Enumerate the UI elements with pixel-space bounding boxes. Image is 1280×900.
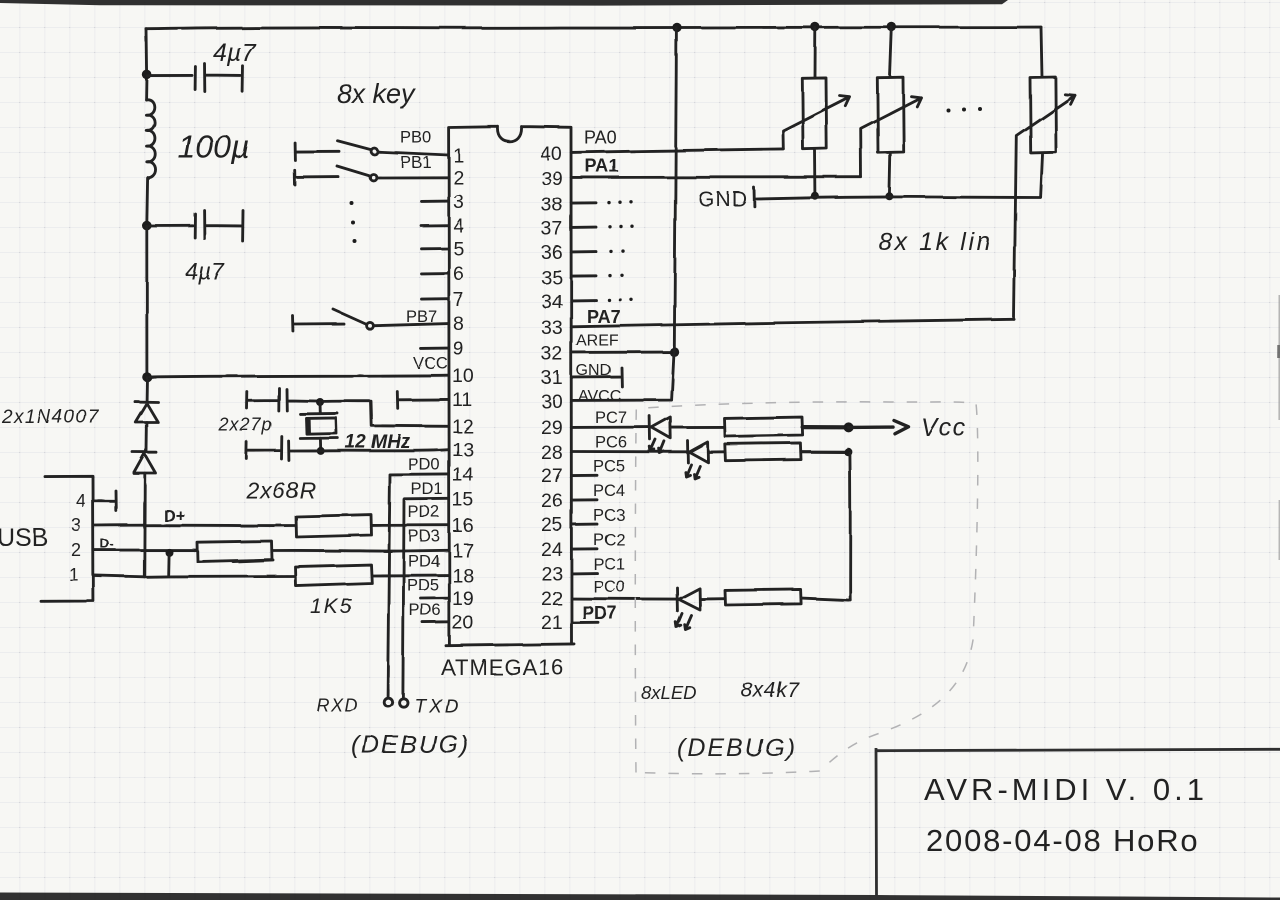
wire: pot GND net with end tick: [754, 188, 1040, 207]
label: D-: [100, 536, 114, 551]
wire: USB pin 4 shield stub with tick: [93, 491, 116, 511]
label: PD2: [408, 504, 440, 522]
wire: LED1 to resistor R1: [671, 426, 724, 429]
pin number 12: [452, 416, 474, 438]
pin number 8: [453, 313, 464, 335]
svg-text:19: 19: [452, 588, 474, 610]
svg-text:11: 11: [452, 389, 472, 411]
pin number 9: [453, 338, 464, 360]
svg-text:2008-04-08 HoRo: 2008-04-08 HoRo: [926, 823, 1199, 858]
pin number 33: [541, 317, 563, 339]
node: ellipsis dots (keys 3..7): [350, 201, 357, 243]
pin number 40: [540, 143, 562, 165]
node: TXD terminal circle: [399, 698, 407, 706]
svg-text:PD4: PD4: [408, 553, 440, 571]
wire: pin 25 stub: [572, 523, 598, 526]
pin number 13: [452, 439, 474, 461]
label: 4µ7 (C1): [213, 39, 256, 67]
svg-text:25: 25: [541, 514, 563, 536]
label: 8x 1k lin: [878, 228, 993, 256]
svg-text:PD3: PD3: [408, 528, 440, 546]
wire: pin 4 stub: [421, 224, 449, 227]
svg-text:32: 32: [541, 343, 563, 365]
pin number 28: [541, 442, 563, 464]
svg-text:PC7: PC7: [595, 409, 627, 427]
svg-text:D+: D+: [163, 506, 185, 525]
label: AREF: [576, 333, 619, 350]
pin number 36: [541, 242, 563, 264]
crystal X1 12MHz: [300, 402, 338, 450]
svg-text:24: 24: [541, 539, 563, 561]
svg-text:7: 7: [453, 289, 464, 311]
svg-text:PB7: PB7: [406, 308, 437, 326]
svg-text:PA0: PA0: [584, 128, 617, 148]
node: junction top rail / pot 1: [811, 22, 820, 31]
wire: diode D2 to USB VBUS line: [143, 473, 146, 577]
wire: switch S2 to pin 2: [376, 176, 448, 179]
wire: pin 34 stub: [572, 299, 597, 302]
node: junction top rail / pot 2: [887, 22, 896, 31]
wire: AVCC pin 30 up to AREF junction: [572, 353, 675, 401]
label: GND (pin 31): [576, 363, 612, 380]
svg-text:PD0: PD0: [408, 456, 440, 474]
svg-text:4µ7: 4µ7: [185, 258, 225, 284]
svg-text:AVR-MIDI V. 0.1: AVR-MIDI V. 0.1: [924, 772, 1208, 807]
svg-text:2x1N4007: 2x1N4007: [1, 407, 100, 428]
svg-text:14: 14: [452, 464, 474, 486]
svg-text:21: 21: [541, 612, 563, 634]
connector J1 USB body: [41, 476, 93, 601]
resistor 68R (D+ series): [296, 515, 372, 537]
pin number 11: [452, 389, 472, 411]
pin number 17: [452, 540, 474, 562]
label: PC7: [595, 409, 627, 427]
svg-text:40: 40: [540, 143, 562, 165]
boundary: debug dashed outline: [635, 402, 978, 774]
switch S2 key PB1: [294, 166, 376, 185]
switch S1 key PB0: [295, 141, 378, 160]
label: PC4: [593, 482, 625, 500]
capacitor C4 27p (lower): [246, 437, 318, 461]
label: PC1: [593, 556, 625, 574]
wire: D- net USB pin 2 to resistor: [93, 549, 196, 552]
wire: pin 9 stub: [421, 347, 449, 350]
label: 8x4k7: [741, 679, 800, 702]
label: PC2: [593, 531, 625, 549]
svg-text:18: 18: [452, 565, 474, 587]
svg-text:8x 1k lin: 8x 1k lin: [878, 228, 993, 256]
wire: switch S1 to pin 1: [378, 152, 449, 155]
svg-text:5: 5: [453, 238, 464, 260]
potentiometer RV1 wiper arrow: [783, 96, 850, 149]
wire: pin 31 GND stub with tick: [572, 368, 623, 387]
wire: pin 28 PC6 to LED2: [572, 450, 687, 453]
node: dots pin 38: [607, 200, 632, 204]
node: junction left rail / C1: [142, 70, 152, 80]
resistor R3 4k7: [725, 589, 801, 605]
svg-text:1: 1: [69, 565, 79, 585]
pin number 15: [452, 489, 474, 511]
wire: pin 6 stub: [421, 272, 449, 275]
wire: VCC net to pin 10: [147, 375, 449, 377]
label: 8x key: [337, 79, 417, 109]
svg-text:AREF: AREF: [576, 333, 619, 350]
label: PD4: [408, 553, 440, 571]
wire: left rail to diode D1: [145, 378, 148, 402]
node: dots pin 37: [608, 225, 633, 229]
label: PD0: [408, 456, 440, 474]
svg-text:20: 20: [452, 612, 474, 634]
svg-text:10: 10: [452, 365, 474, 387]
svg-text:(DEBUG): (DEBUG): [351, 731, 471, 759]
pin number 4: [453, 215, 464, 237]
label: PB1: [400, 154, 431, 172]
node: dots pin 34: [607, 298, 632, 302]
label: PB7: [406, 308, 437, 326]
title block frame: [876, 748, 1280, 896]
node: junction R1 / Vcc arrow / column: [844, 422, 854, 432]
pin number 3: [453, 191, 464, 213]
pin number 26: [541, 490, 563, 512]
pin number 27: [541, 465, 563, 487]
IC U1 ATMEGA16 body: [446, 127, 574, 646]
wire: PA0 net pin 40 to pot 1 wiper: [572, 149, 784, 153]
svg-text:3: 3: [453, 191, 464, 213]
svg-text:PD7: PD7: [582, 603, 617, 623]
potentiometer RV3 1k body: [1030, 27, 1056, 197]
svg-text:8x key: 8x key: [337, 79, 417, 109]
wire: pin 20 stub: [423, 621, 449, 624]
wire: pin 29 PC7 to LED1: [572, 426, 649, 429]
svg-text:12 MHz: 12 MHz: [345, 432, 411, 453]
node: junction top rail / vcc feed: [672, 23, 681, 32]
wire: USB pin 1 VBUS line: [93, 575, 294, 576]
svg-text:4: 4: [76, 491, 86, 511]
wire: pin 11 stub with tick: [397, 392, 448, 409]
pin number 14: [452, 464, 474, 486]
wire: R1 to Vcc node (heavy): [803, 425, 848, 429]
svg-text:2x27p: 2x27p: [218, 415, 273, 435]
pin number 25: [541, 514, 563, 536]
diode D1 1N4007: [135, 402, 158, 422]
label: date 2008-04-08 HoRo: [926, 823, 1199, 858]
wire: pin 15 TXD drop: [403, 499, 449, 697]
pin number 24: [541, 539, 563, 561]
LED D4 (PC6): [685, 441, 708, 479]
pin number 10: [452, 365, 474, 387]
svg-text:12: 12: [452, 416, 474, 438]
wire: vcc column vertical: [848, 453, 851, 600]
wire: pin 37 stub: [572, 226, 597, 229]
svg-text:6: 6: [453, 263, 464, 285]
wire: pin 27 stub: [572, 474, 598, 477]
capacitor C1 4µ7: [147, 64, 243, 92]
inductor L1 100µ: [146, 99, 156, 225]
wire: D+ resistor to pin 16: [372, 524, 449, 527]
LED D3 (PC7): [650, 416, 671, 453]
node: junction RV1 / GND net: [811, 192, 819, 200]
pin number 2: [453, 167, 464, 189]
svg-text:4: 4: [453, 215, 464, 237]
wire: pin 14 RXD drop: [388, 474, 449, 696]
svg-text:PD6: PD6: [409, 602, 441, 620]
wire: left supply rail upper: [145, 29, 148, 100]
label: USB: [0, 524, 48, 552]
svg-text:15: 15: [452, 489, 474, 511]
node: junction left rail / C2: [142, 221, 152, 231]
svg-text:TXD: TXD: [414, 696, 461, 717]
wire: D- junction stub down to VBUS line: [167, 554, 170, 575]
pin number 1: [453, 145, 464, 167]
wire: pin 5 stub: [422, 247, 449, 250]
node: junction D- / pullup stub: [165, 548, 173, 556]
wire: Vcc arrow: [849, 421, 909, 434]
pin number 34: [541, 291, 563, 313]
svg-text:8xLED: 8xLED: [641, 682, 697, 703]
svg-text:2: 2: [453, 167, 464, 189]
potentiometer RV1 1k body: [802, 28, 826, 196]
wire: pin 36 stub: [572, 250, 597, 253]
svg-text:16: 16: [452, 515, 474, 537]
pin number 6: [453, 263, 464, 285]
capacitor C2 4µ7: [147, 211, 243, 242]
label: 2x68R: [245, 477, 316, 503]
label: PD5: [407, 577, 439, 595]
svg-text:PC2: PC2: [593, 531, 625, 549]
label: PD1: [411, 481, 443, 499]
svg-text:35: 35: [541, 267, 563, 289]
label: (DEBUG) leds: [677, 734, 797, 762]
node: junction R2 / vcc column: [844, 448, 852, 456]
wire: switch S8 to pin 8: [373, 324, 448, 326]
pin number 5: [453, 238, 464, 260]
pin number 16: [452, 515, 474, 537]
resistor R1 4k7: [725, 417, 803, 436]
svg-text:4µ7: 4µ7: [213, 39, 256, 67]
label: RXD: [316, 695, 359, 715]
label: PD3: [408, 528, 440, 546]
pin number 31: [541, 367, 563, 389]
label: USB pin 2: [71, 540, 81, 560]
svg-text:Vcc: Vcc: [921, 414, 967, 442]
label: PD6: [409, 602, 441, 620]
pin number 39: [541, 168, 563, 190]
wire: pin 26 stub: [572, 498, 598, 501]
wire: pin 24 stub: [572, 547, 598, 550]
label: title AVR-MIDI V. 0.1: [924, 772, 1208, 807]
label: 1K5: [310, 595, 353, 618]
label: ATMEGA16: [441, 655, 565, 680]
wire: 1K5 to pin 18: [372, 574, 449, 577]
svg-text:PC6: PC6: [595, 434, 627, 452]
svg-text:100µ: 100µ: [178, 129, 250, 165]
pin number 30: [541, 391, 563, 413]
svg-text:PC0: PC0: [593, 578, 625, 596]
svg-text:17: 17: [452, 540, 474, 562]
svg-text:PD2: PD2: [408, 504, 440, 522]
wire: LED2 to resistor R2: [708, 450, 724, 453]
node: dots pin 36: [609, 249, 624, 253]
pin number 23: [541, 563, 563, 585]
label: 2x1N4007: [1, 407, 100, 428]
pin number 35: [541, 267, 563, 289]
label: USB pin 4: [76, 491, 86, 511]
potentiometer RV2 1k body: [877, 27, 903, 196]
potentiometer RV3 wiper arrow: [1014, 94, 1075, 319]
wire: pin 22 PC0 to LED3: [572, 597, 676, 600]
wire: left rail middle: [145, 226, 148, 377]
svg-text:(DEBUG): (DEBUG): [677, 734, 797, 762]
svg-text:27: 27: [541, 465, 563, 487]
wire: D- resistor to pin 17: [272, 549, 449, 553]
svg-text:36: 36: [541, 242, 563, 264]
svg-text:PC1: PC1: [593, 556, 625, 574]
node: junction RV2 / GND net: [885, 192, 893, 200]
svg-text:PB0: PB0: [400, 129, 431, 147]
label: GND (pots): [698, 188, 748, 211]
label: (DEBUG) serial: [351, 731, 471, 759]
label: USB pin 1: [69, 565, 79, 585]
label: PA0: [584, 128, 617, 148]
svg-text:1: 1: [453, 145, 464, 167]
wire: D+ net USB pin 3 to resistor: [93, 524, 295, 527]
wire: top Vcc rail: [146, 27, 1041, 29]
svg-text:RXD: RXD: [316, 695, 359, 715]
wire: LED3 to resistor R3: [700, 597, 724, 600]
pin number 21: [541, 612, 563, 634]
svg-text:VCC: VCC: [413, 355, 448, 373]
label: PC6: [595, 434, 627, 452]
label: Vcc: [921, 414, 967, 442]
wire: R2 to vcc column: [801, 450, 848, 453]
svg-text:PC4: PC4: [593, 482, 625, 500]
label: D+: [163, 506, 185, 525]
svg-text:22: 22: [541, 588, 563, 610]
node: ellipsis dots (pots 3..7): [946, 107, 982, 112]
label: VCC: [413, 355, 448, 373]
svg-text:PC5: PC5: [593, 458, 625, 476]
pin number 20: [452, 612, 474, 634]
svg-text:30: 30: [541, 391, 563, 413]
node: RXD terminal circle: [384, 698, 392, 706]
label: 100µ (L1): [178, 129, 250, 165]
svg-text:PB1: PB1: [400, 154, 431, 172]
pin number 37: [541, 218, 563, 240]
wire: AREF pin 32 to vcc feed: [572, 351, 675, 354]
label: PC3: [593, 507, 625, 525]
pin number 29: [541, 417, 563, 439]
label: 2x27p: [218, 415, 273, 435]
pin number 38: [541, 194, 563, 216]
capacitor C3 27p (upper): [247, 388, 318, 411]
svg-text:3: 3: [71, 515, 81, 535]
svg-text:29: 29: [541, 417, 563, 439]
svg-text:GND: GND: [698, 188, 748, 211]
wire: pin 19 stub: [421, 597, 449, 600]
label: PD7: [582, 603, 617, 623]
wire: pin 35 stub: [572, 274, 597, 277]
wire: upper 27p to pin 12: [320, 401, 449, 426]
pin number 18: [452, 565, 474, 587]
svg-text:AVCC: AVCC: [578, 388, 621, 405]
potentiometer RV2 wiper arrow: [861, 96, 921, 177]
node: junction XTAL2 net: [316, 398, 324, 406]
wire: between diodes: [145, 422, 148, 452]
svg-text:39: 39: [541, 168, 563, 190]
resistor 1K5: [295, 565, 372, 586]
svg-text:ATMEGA16: ATMEGA16: [441, 655, 565, 680]
wire: PA7 net pin 33 to pot 3 wiper: [572, 319, 1015, 327]
label: 12 MHz: [345, 432, 411, 453]
resistor 68R (D- series): [197, 541, 273, 562]
wire: pin 3 stub: [422, 200, 449, 203]
svg-text:1K5: 1K5: [310, 595, 353, 618]
svg-text:PC3: PC3: [593, 507, 625, 525]
svg-text:34: 34: [541, 291, 563, 313]
svg-text:PD5: PD5: [407, 577, 439, 595]
wire: R3 to vcc column corner: [801, 598, 850, 600]
label: 4µ7 (C2): [185, 258, 225, 284]
svg-text:26: 26: [541, 490, 563, 512]
label: PA7: [587, 307, 621, 327]
pin number 22: [541, 588, 563, 610]
svg-text:37: 37: [541, 218, 563, 240]
svg-text:D-: D-: [100, 536, 114, 551]
diode D2 1N4007: [133, 452, 157, 473]
svg-text:31: 31: [541, 367, 563, 389]
svg-text:PA1: PA1: [585, 156, 619, 176]
wire: pin 23 stub: [572, 572, 598, 575]
label: PC0: [593, 578, 625, 596]
label: TXD: [414, 696, 461, 717]
wire: lower 27p to pin 13: [321, 450, 449, 451]
node: dots pin 35: [608, 274, 623, 278]
wire: pin 7 stub: [422, 297, 449, 300]
svg-text:23: 23: [541, 563, 563, 585]
pin number 19: [452, 588, 474, 610]
LED D5 (PC0): [676, 588, 700, 630]
pin number 7: [453, 289, 464, 311]
wire: vcc feed vertical from top rail: [674, 28, 676, 352]
svg-text:USB: USB: [0, 524, 48, 552]
resistor R2 4k7: [725, 443, 801, 461]
node: junction XTAL1 net: [317, 447, 325, 455]
svg-text:2x68R: 2x68R: [245, 477, 316, 503]
label: PC5: [593, 458, 625, 476]
svg-text:9: 9: [453, 338, 464, 360]
svg-text:8x4k7: 8x4k7: [741, 679, 800, 702]
label: USB pin 3: [71, 515, 81, 535]
wire: pin 38 stub: [572, 201, 597, 204]
svg-text:13: 13: [452, 439, 474, 461]
wire: PA1 net pin 39 to pot 2 wiper: [572, 176, 862, 179]
svg-text:38: 38: [541, 194, 563, 216]
switch S8 key PB7: [293, 310, 373, 332]
svg-text:2: 2: [71, 540, 81, 560]
label: PA1: [585, 156, 619, 176]
svg-text:PD1: PD1: [411, 481, 443, 499]
svg-text:PA7: PA7: [587, 307, 621, 327]
label: 8xLED: [641, 682, 697, 703]
label: AVCC: [578, 388, 621, 405]
node: junction left rail / VCC pin 10: [142, 372, 152, 382]
svg-text:8: 8: [453, 313, 464, 335]
label: PB0: [400, 129, 431, 147]
pin number 32: [541, 343, 563, 365]
wire: pin 21 stub: [572, 621, 599, 624]
svg-text:33: 33: [541, 317, 563, 339]
node: junction AREF / AVCC / vcc feed: [669, 347, 679, 357]
